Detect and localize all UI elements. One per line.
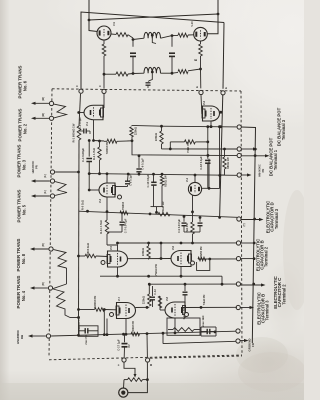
terminal B2 <box>236 241 240 245</box>
resistor R-27 on screen bus <box>172 71 178 74</box>
svg-text:680Ω 1W: 680Ω 1W <box>226 157 230 169</box>
tube V-8 <box>165 302 185 318</box>
capacitor C-21 <box>132 40 134 47</box>
svg-text:C-6 0.1μF: C-6 0.1μF <box>141 158 145 170</box>
V6 cathode down <box>180 267 182 277</box>
svg-text:V-6: V-6 <box>171 245 175 250</box>
callout arrow ground <box>240 340 246 342</box>
resistor R-18 220k <box>148 294 151 306</box>
terminal T33 <box>50 194 54 198</box>
svg-text:7W603 1kΩ: 7W603 1kΩ <box>86 243 90 257</box>
terminal P1 <box>237 125 241 129</box>
long bias wire y211-218 <box>79 211 237 217</box>
resistor R-29 in ground wire <box>131 332 140 335</box>
V7 grid cap circle <box>110 313 114 317</box>
terminal ground-return <box>46 334 50 338</box>
V8 left pin <box>160 309 165 311</box>
svg-text:PR: PR <box>261 169 265 173</box>
wire V10 cathode to terminal <box>200 69 202 88</box>
svg-text:220kΩ: 220kΩ <box>134 126 138 135</box>
dashed stub bottom right <box>150 356 242 358</box>
tube V-7 <box>117 303 136 319</box>
tube V-3 <box>99 183 115 197</box>
corner to y284 wire <box>221 276 223 284</box>
callout arrow DC balance pot 3 <box>241 148 255 150</box>
svg-text:(F.): (F.) <box>44 174 47 178</box>
svg-text:820Ω 1W: 820Ω 1W <box>164 175 168 187</box>
resistor R-20 <box>158 296 161 308</box>
svg-text:220kΩ: 220kΩ <box>141 247 145 256</box>
svg-text:(W): (W) <box>42 97 45 101</box>
svg-text:E: E <box>195 86 199 88</box>
svg-text:PACK 7Ω: PACK 7Ω <box>182 308 186 319</box>
svg-text:7W603 PR: 7W603 PR <box>93 296 97 309</box>
terminal G2 <box>236 339 240 343</box>
wire V1 left pin to bus <box>79 112 84 114</box>
svg-text:V-2: V-2 <box>202 100 206 105</box>
terminal T41 <box>48 286 52 290</box>
V7 plate wire <box>136 306 150 308</box>
terminal T81 <box>49 247 53 251</box>
capacitor C-9 <box>183 217 185 222</box>
wire to top edge right <box>217 0 219 14</box>
HV winding No.8 <box>54 250 67 268</box>
svg-text:V-7: V-7 <box>117 296 121 301</box>
svg-text:V-1: V-1 <box>85 121 89 126</box>
terminal T31 with line to bus <box>50 170 54 174</box>
capacitor C-13 <box>184 284 186 291</box>
wire joining C-9 C-16 <box>184 231 200 233</box>
wire bus to tube V10 right pin <box>207 14 218 34</box>
resistor R-2 <box>99 141 101 147</box>
svg-text:PR: PR <box>35 165 39 169</box>
left output cluster box <box>79 326 98 337</box>
resistor R-15 220k <box>147 246 150 258</box>
tube V-6 <box>171 251 191 267</box>
svg-text:V-9: V-9 <box>112 22 116 26</box>
terminal B3 <box>236 282 240 286</box>
dashed chassis box bottom edge <box>49 355 242 360</box>
terminal J1 on dashed line <box>122 358 126 362</box>
capacitor C-17 to jack terminal <box>124 334 126 342</box>
tube V-2 <box>203 106 220 121</box>
svg-text:HM-0000C: HM-0000C <box>258 164 262 177</box>
svg-text:C-17 1μF: C-17 1μF <box>117 339 121 351</box>
resistor R-out in box <box>173 328 194 332</box>
coupling capacitor C-6 <box>138 156 140 168</box>
top box outline <box>81 12 224 89</box>
wire terminal E1 to V2 grid <box>201 95 203 113</box>
V4 cathode down with resistor R-12 <box>192 196 194 212</box>
svg-text:(T): (T) <box>243 223 246 226</box>
svg-text:+: + <box>117 364 121 366</box>
capacitor C-12 <box>152 286 154 296</box>
terminal E1 <box>199 90 203 94</box>
pot wiper arrow <box>134 374 137 378</box>
stub B2 to bus <box>241 242 255 244</box>
svg-text:No. 4: No. 4 <box>21 290 26 301</box>
svg-text:Terminal 3: Terminal 3 <box>274 208 279 229</box>
svg-text:220kΩ: 220kΩ <box>154 132 158 141</box>
svg-text:C-7 0.047μF: C-7 0.047μF <box>124 218 128 233</box>
terminal E3 <box>236 257 240 261</box>
resistor R-23 <box>116 72 128 76</box>
wire y259 to terminal E3 <box>198 258 237 260</box>
svg-text:74kΩ 1W: 74kΩ 1W <box>161 201 165 213</box>
terminal P3 <box>237 153 241 157</box>
ground wire y343 to terminal G2 <box>162 333 164 344</box>
svg-text:7W60 PR: 7W60 PR <box>199 246 203 257</box>
V8 plate wire to terminal C3 <box>183 306 237 308</box>
svg-text:Terminal 2: Terminal 2 <box>281 284 286 305</box>
HV winding No.4 <box>53 289 70 318</box>
resistor R-6 220k <box>161 126 163 131</box>
svg-text:max 1kΩ: max 1kΩ <box>201 316 205 327</box>
wire V2 plate to bus <box>220 111 221 113</box>
capacitor C-22 <box>171 36 173 47</box>
V3 coupling cap C-8 <box>115 186 128 188</box>
resistor R-1 in left bus <box>77 126 81 140</box>
svg-text:Terminal 2: Terminal 2 <box>264 246 269 267</box>
wire V9 line to terminal <box>103 74 105 88</box>
V3 plate up <box>106 174 108 183</box>
lead arrow T62 <box>33 117 49 119</box>
cathode taps <box>106 319 108 335</box>
wire J2 to jack <box>128 363 148 393</box>
terminal C3 <box>236 305 240 309</box>
svg-text:7W603 PR: 7W603 PR <box>105 142 109 155</box>
tube V-4 splitter right <box>188 182 201 195</box>
svg-text:No. 6: No. 6 <box>23 80 28 91</box>
wire pot left to jack <box>123 380 126 389</box>
svg-text:max 7Ω: max 7Ω <box>85 335 88 344</box>
svg-text:Terminal 3: Terminal 3 <box>281 119 286 140</box>
resistor R-13 in bias wire <box>120 211 128 215</box>
svg-text:R-2 4.7kΩ: R-2 4.7kΩ <box>92 148 96 160</box>
svg-text:C-8 0.1μF: C-8 0.1μF <box>129 174 133 186</box>
terminal F2 <box>102 89 106 93</box>
capacitor C-19 <box>206 329 208 334</box>
capacitor C-14 <box>84 328 86 333</box>
plate bus top <box>89 14 218 20</box>
terminal P2 <box>237 147 241 151</box>
capacitor C-7 <box>121 212 123 221</box>
svg-text:E: E <box>224 87 228 89</box>
wire x147 down <box>146 334 148 358</box>
svg-text:Terminal 1: Terminal 1 <box>273 149 278 170</box>
wire to top edge left <box>88 0 90 20</box>
long cathode wire y276 <box>100 275 222 277</box>
terminal F1 <box>79 89 83 93</box>
wire y155 to terminal P3 <box>132 141 238 156</box>
svg-text:R-1 680kΩ 1W: R-1 680kΩ 1W <box>72 123 76 142</box>
dashed chassis box top edge <box>52 89 241 91</box>
phone jack <box>119 388 128 397</box>
svg-text:7W603: 7W603 <box>121 201 125 210</box>
resistor R-3 <box>104 140 107 142</box>
svg-text:V-4: V-4 <box>185 177 189 182</box>
choke L-2 center tap <box>149 73 152 81</box>
output tube V10 <box>194 27 208 41</box>
V5 grid cap circle <box>101 261 105 265</box>
output tube V9 <box>97 26 111 40</box>
svg-text:V-5: V-5 <box>109 245 113 250</box>
grid wire y140 <box>94 140 105 143</box>
svg-text:C-10 10μF: C-10 10μF <box>146 174 150 187</box>
heater winding No.3 <box>55 182 67 196</box>
svg-text:A4053 77Ω: A4053 77Ω <box>78 316 81 329</box>
callout arrow P4 <box>241 174 249 176</box>
resistor R-28 in bias wire <box>158 212 170 216</box>
resistor R-11 <box>161 174 163 176</box>
V6 left pin wire <box>128 258 172 260</box>
long wire y174 <box>89 174 237 176</box>
callout arrow electrolytic C3 <box>240 307 252 309</box>
svg-text:No. 3: No. 3 <box>22 159 27 170</box>
wire y149 to terminal P2 <box>162 148 238 150</box>
screen bus lower wire <box>104 73 116 75</box>
V5 cathode down <box>117 267 119 276</box>
wire y126 to terminal P1 <box>162 125 238 128</box>
svg-text:C-4 0.68μF: C-4 0.68μF <box>81 148 85 162</box>
resistor R-14 <box>106 212 108 220</box>
svg-text:M: M <box>149 364 153 366</box>
svg-text:Terminal 3: Terminal 3 <box>264 300 269 321</box>
callout arrow electrolytic B3 <box>241 284 264 286</box>
svg-text:7W4Ω PR: 7W4Ω PR <box>154 264 158 276</box>
lead arrow T61 <box>33 102 49 104</box>
svg-text:DB: DB <box>20 335 24 339</box>
svg-text:V-8: V-8 <box>165 296 169 301</box>
stub E3 to bus <box>241 258 255 260</box>
cathode resistor R-24 under V9 <box>103 40 105 44</box>
wire V3 left pin <box>89 189 99 191</box>
svg-text:V-10: V-10 <box>190 21 194 27</box>
vertical x219.5 <box>219 127 221 189</box>
wire V2 cathode down <box>210 121 212 127</box>
heater winding No.6 <box>54 104 67 118</box>
svg-text:220kΩ: 220kΩ <box>142 295 146 304</box>
terminal T61 <box>49 101 53 105</box>
hum balance pot R-26 <box>128 378 143 382</box>
capacitor C-3 on bus <box>79 130 84 132</box>
svg-text:C-18 0.1μF: C-18 0.1μF <box>199 156 203 170</box>
resistor R-4 220k vertical <box>131 137 133 141</box>
V6 grid cap circle <box>191 261 195 265</box>
capacitor C-18 in x208 <box>205 159 210 161</box>
callout arrow electrolytic D <box>241 219 262 221</box>
lead arrow T33 <box>33 195 50 197</box>
resistor R-7 74k <box>170 141 184 143</box>
tube V-5 <box>108 251 128 267</box>
svg-text:V-3: V-3 <box>98 198 102 203</box>
hum balance pot wires <box>124 363 135 375</box>
terminal P4 <box>237 173 241 177</box>
V8 grid cap circle <box>185 313 189 317</box>
wire V1 cathode down <box>93 120 95 141</box>
svg-text:C-9 0.047μF: C-9 0.047μF <box>178 219 181 234</box>
lead arrow T32 <box>33 180 50 182</box>
terminal D3 <box>237 217 241 221</box>
V4 plate pi-network <box>202 187 210 189</box>
svg-text:No. 2: No. 2 <box>23 123 28 134</box>
V4 top pin <box>194 175 196 182</box>
resistor R-16 grid <box>79 255 86 257</box>
V3 cathode down <box>106 197 108 212</box>
svg-text:R-14 4.7kΩ: R-14 4.7kΩ <box>99 220 103 233</box>
svg-text:7kΩ PR: 7kΩ PR <box>185 223 189 232</box>
left bus join <box>78 320 80 335</box>
svg-text:(B): (B) <box>42 282 45 286</box>
choke L-1 center tap <box>152 35 156 43</box>
wire upper to coil <box>133 38 144 39</box>
svg-text:No. 5: No. 5 <box>22 204 27 215</box>
wire terminal F2 to V1 grid tab <box>103 94 105 108</box>
vertical x208 <box>207 127 209 159</box>
resistor R-22 plate right <box>172 34 178 36</box>
right output cluster <box>201 326 216 328</box>
callout arrow DC balance pot 1 <box>241 155 267 157</box>
svg-text:(W): (W) <box>42 113 45 117</box>
cathode cap C-4 <box>88 141 90 157</box>
lead arrow T41 <box>32 287 48 289</box>
svg-text:(B): (B) <box>42 243 45 247</box>
svg-text:8V: 8V <box>127 344 131 347</box>
tube V-1 <box>84 105 103 120</box>
decoupling cluster C-10 R-11 <box>153 174 155 182</box>
resistor R-19 grid <box>79 309 95 311</box>
terminal J2 on dashed line <box>146 358 150 362</box>
resistor R-9 680 on bus <box>223 157 226 169</box>
ground bus wire y333 <box>51 331 236 336</box>
terminal T62 <box>49 116 53 120</box>
dashed chassis box right edge <box>241 91 242 355</box>
wire grid junction to ground wire <box>103 310 105 335</box>
coupling wire y125 <box>132 124 162 127</box>
wire bus down to tube V9 left pin <box>89 20 97 32</box>
resistor R-17 feedback <box>198 257 206 261</box>
main supply bus right <box>241 127 255 343</box>
capacitor C-16 <box>199 218 201 222</box>
svg-text:C-12: C-12 <box>153 289 157 295</box>
capacitor C-23 under choke tap <box>148 80 149 83</box>
resistor R-21 plate left <box>111 33 116 35</box>
terminal E2 <box>221 91 225 95</box>
svg-text:7W603 PR: 7W603 PR <box>132 321 135 333</box>
filter choke L-2 lower <box>144 67 161 73</box>
V3 grid cap circle <box>118 195 122 199</box>
wire y284 to terminal B3 <box>150 283 237 285</box>
filter choke L-1 upper <box>144 32 161 38</box>
cathode resistor R-25 under V10 <box>200 41 202 44</box>
right bus from box corner down <box>223 23 224 89</box>
left B+ bus <box>79 94 81 126</box>
terminal T32 <box>50 179 54 183</box>
wire y243 to terminal B2 <box>118 242 238 244</box>
svg-text:R-5 1kΩ: R-5 1kΩ <box>81 200 85 210</box>
dashed chassis box left edge <box>49 89 52 358</box>
svg-text:(F.): (F.) <box>44 190 47 194</box>
svg-text:74kΩ 1W: 74kΩ 1W <box>186 141 190 153</box>
output network box <box>167 318 200 335</box>
lead arrow ground-return <box>30 335 46 337</box>
svg-text:74kΩ PR: 74kΩ PR <box>202 295 206 306</box>
svg-text:No. 8: No. 8 <box>21 253 26 264</box>
cluster bottom wire <box>151 206 164 208</box>
svg-text:HM-0000C: HM-0000C <box>31 161 35 174</box>
lead arrow T81 <box>32 248 48 250</box>
svg-text:C-3 0.1μF: C-3 0.1μF <box>78 117 82 129</box>
terminal G1 <box>236 329 240 333</box>
